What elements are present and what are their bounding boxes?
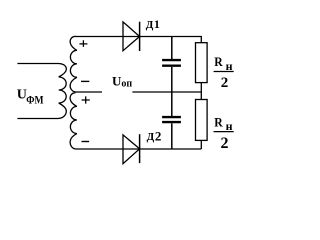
svg-text:2: 2: [155, 129, 162, 144]
wire primary top lead: [17, 63, 58, 65]
capacitor C1 top lead: [171, 37, 173, 60]
label Rn (top fraction numerator): [214, 55, 232, 73]
wire bottom rail (secondary bottom to R2 bottom): [76, 148, 202, 150]
polarity plus (secondary lower, top): [82, 96, 90, 103]
label U_op: [112, 74, 132, 90]
transformer secondary lower winding (4 arcs): [70, 93, 77, 149]
diode D1 cathode bar: [139, 22, 141, 51]
resistor R1 body: [196, 43, 208, 83]
label D1: [146, 17, 160, 31]
svg-text:U: U: [17, 87, 27, 102]
svg-text:Д: Д: [146, 19, 154, 31]
wire center tap segment to Uop: [76, 91, 103, 93]
svg-text:н: н: [226, 59, 233, 73]
capacitor C2 plates: [162, 116, 181, 118]
transformer secondary upper winding (4 arcs): [70, 36, 77, 92]
svg-text:2: 2: [221, 135, 229, 152]
label D2: [147, 129, 162, 144]
svg-text:R: R: [214, 55, 223, 70]
wire primary bottom lead: [17, 118, 58, 120]
diode D2 cathode bar: [139, 134, 141, 163]
polarity minus (secondary lower, bottom): [82, 141, 90, 143]
polarity plus (secondary upper, top): [79, 40, 87, 47]
svg-text:оп: оп: [121, 79, 132, 90]
svg-text:R: R: [214, 115, 223, 130]
svg-text:ФМ: ФМ: [26, 93, 43, 106]
wire R2 bottom lead: [200, 140, 202, 149]
polarity minus (secondary upper, bottom): [81, 80, 89, 82]
label Rn (bottom fraction numerator): [214, 115, 232, 133]
diode D1 triangle: [123, 22, 140, 51]
wire top rail (secondary top to resistor R1): [76, 37, 202, 43]
wire R1 bottom lead to R2 top lead: [200, 83, 202, 100]
fraction bar of Rn/2 label bottom: [214, 131, 234, 133]
capacitor C1 bottom lead: [171, 67, 173, 92]
capacitor C2 bottom lead: [171, 123, 173, 149]
wire middle rail right: [132, 91, 201, 93]
capacitor C2 top lead: [171, 92, 173, 116]
fraction bar of Rn/2 label top: [214, 71, 234, 73]
svg-text:Д: Д: [147, 131, 155, 143]
resistor R2 body: [196, 100, 208, 141]
label U_FM: [17, 87, 44, 106]
svg-text:н: н: [226, 119, 233, 133]
transformer primary winding (4 arcs): [58, 64, 66, 119]
diode D2 triangle: [123, 135, 140, 164]
svg-text:2: 2: [221, 75, 229, 91]
svg-text:1: 1: [154, 17, 160, 31]
capacitor C1 plates: [162, 59, 181, 61]
